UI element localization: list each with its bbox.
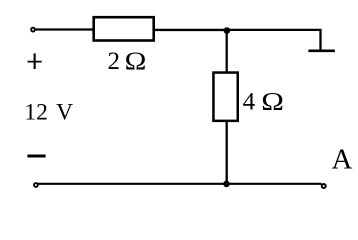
- wire: T1 to R1 left lead: [35, 28, 93, 30]
- wire: R2 bottom to junction N2: [226, 121, 228, 184]
- terminal A (bottom-right open terminal): [322, 184, 326, 188]
- wire: bottom rail T2 to terminal A: [36, 183, 322, 185]
- svg-text:A: A: [332, 143, 353, 175]
- svg-text:Ω: Ω: [261, 88, 284, 116]
- wire: N1 down to R2 top: [226, 29, 228, 73]
- resistor R2 (4 ohm, vertical box): [213, 73, 237, 121]
- label − (source negative sign): [27, 155, 45, 158]
- junction node N1 (top node): [224, 27, 231, 34]
- ground symbol: [308, 49, 335, 52]
- resistor R1 (2 ohm, horizontal box): [94, 17, 154, 40]
- terminal T2 (bottom-left, negative terminal): [34, 183, 38, 187]
- wire: R1 right lead to junction N1: [155, 29, 227, 31]
- svg-text:4: 4: [243, 88, 256, 115]
- label + (source positive sign): [28, 53, 42, 69]
- terminal T1 (top-left, positive terminal): [31, 28, 35, 32]
- svg-text:Ω: Ω: [125, 47, 147, 75]
- junction node N2 (bottom node): [223, 181, 230, 188]
- wire: N1 to ground corner: [227, 30, 321, 51]
- svg-text:2: 2: [108, 48, 121, 75]
- svg-text:12 V: 12 V: [24, 100, 73, 126]
